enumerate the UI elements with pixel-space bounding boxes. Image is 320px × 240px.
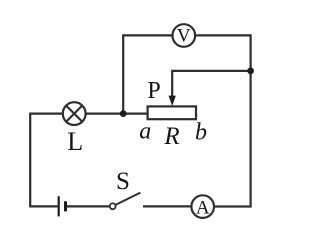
voltmeter V [173, 24, 196, 47]
wire switch to ammeter [143, 205, 191, 207]
svg-text:b: b [195, 119, 207, 145]
svg-text:S: S [116, 168, 130, 195]
wire voltmeter to top-right corner down right rail to ammeter [196, 35, 251, 206]
svg-text:P: P [147, 78, 160, 104]
switch S [110, 193, 141, 210]
wire left side: lamp row to battery row [30, 114, 62, 207]
wire junction up to voltmeter row [123, 35, 172, 113]
potentiometer wiper arrowhead [169, 96, 176, 106]
wire lamp to potentiometer box [86, 112, 147, 114]
svg-text:R: R [163, 123, 179, 150]
svg-text:V: V [177, 26, 191, 47]
lamp L [63, 102, 86, 125]
node junction slider tap on right rail [247, 68, 254, 75]
svg-text:A: A [196, 197, 210, 218]
svg-text:a: a [139, 118, 151, 144]
ammeter A [191, 195, 214, 218]
battery cell [59, 196, 66, 216]
node junction at lamp row [120, 110, 127, 117]
svg-text:L: L [67, 127, 83, 156]
resistor R potentiometer track box [148, 106, 196, 119]
wire slider tap to right rail [172, 71, 250, 96]
wire battery to switch [66, 205, 110, 207]
